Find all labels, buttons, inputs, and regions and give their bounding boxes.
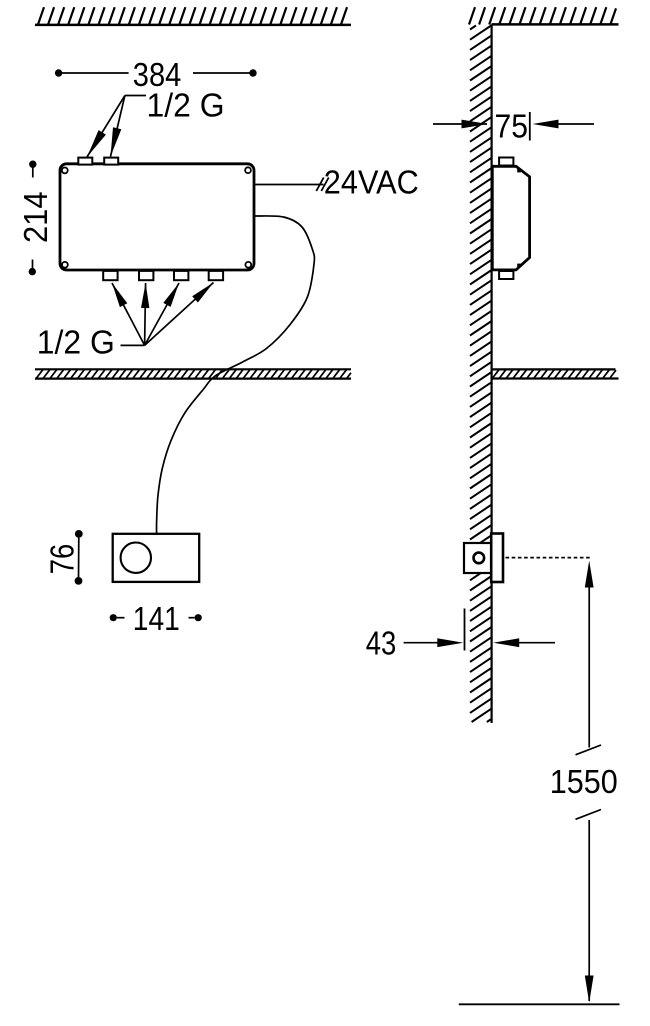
- svg-text:1/2 G: 1/2 G: [37, 325, 115, 362]
- leader 1/2 G bottom with four arrows: [112, 283, 214, 346]
- break tick lower: [576, 810, 602, 820]
- corner screw top-right: [245, 167, 251, 173]
- dimension 76: [45, 530, 83, 585]
- dimension 1550 vertical line: [550, 561, 618, 1003]
- svg-text:384: 384: [133, 57, 182, 94]
- floor band left (hatched): [35, 369, 351, 378]
- junction box (side view) bottom fitting: [499, 271, 513, 279]
- flush-mounted box (side view): [464, 543, 492, 573]
- dimension 141: [110, 601, 202, 638]
- bottom outlet fitting 1: [103, 271, 117, 280]
- ceiling hatch left: [35, 7, 351, 25]
- svg-text:214: 214: [18, 192, 55, 244]
- floor line: [459, 1003, 620, 1005]
- side view screw top: [517, 169, 521, 173]
- svg-text:24VAC: 24VAC: [324, 165, 419, 202]
- break slashes on 24VAC wire: [316, 178, 323, 192]
- corner screw top-left: [62, 168, 68, 174]
- svg-text:43: 43: [366, 625, 397, 662]
- 24VAC leader wire: [255, 184, 324, 186]
- break tick upper: [576, 745, 602, 755]
- wall face line: [491, 24, 493, 723]
- svg-text:1550: 1550: [550, 764, 618, 801]
- junction box (side view) body: [492, 166, 529, 270]
- dimension 384: [55, 57, 257, 94]
- bottom outlet fitting 3: [174, 271, 188, 280]
- svg-text:141: 141: [133, 601, 180, 638]
- top inlet fitting 1: [78, 158, 92, 165]
- bottom outlet fitting 4: [209, 271, 223, 280]
- control unit (front view): [113, 534, 200, 582]
- ceiling hatch right: [469, 7, 619, 24]
- cable from junction box to control unit: [157, 216, 315, 533]
- bottom outlet fitting 2: [139, 271, 153, 280]
- svg-text:76: 76: [45, 544, 82, 575]
- dashed reference line: [506, 557, 592, 559]
- svg-text:75: 75: [495, 109, 529, 146]
- junction box (front view): [60, 164, 254, 270]
- floor band right (hatched): [492, 369, 619, 378]
- dimension 43: [366, 609, 555, 663]
- top inlet fitting 2: [104, 158, 118, 165]
- flush box screw hole: [474, 553, 485, 564]
- control unit plate (side view): [491, 534, 503, 583]
- leader 1/2 G top: [87, 96, 146, 158]
- control knob: [121, 543, 151, 573]
- wall hatch: [470, 26, 492, 723]
- dimension 75: [433, 109, 594, 146]
- corner screw bottom-left: [62, 262, 68, 268]
- dimension 214: [18, 161, 55, 276]
- side view screw bottom: [517, 264, 521, 268]
- junction box (side view) top fitting: [499, 158, 513, 166]
- corner screw bottom-right: [245, 262, 251, 268]
